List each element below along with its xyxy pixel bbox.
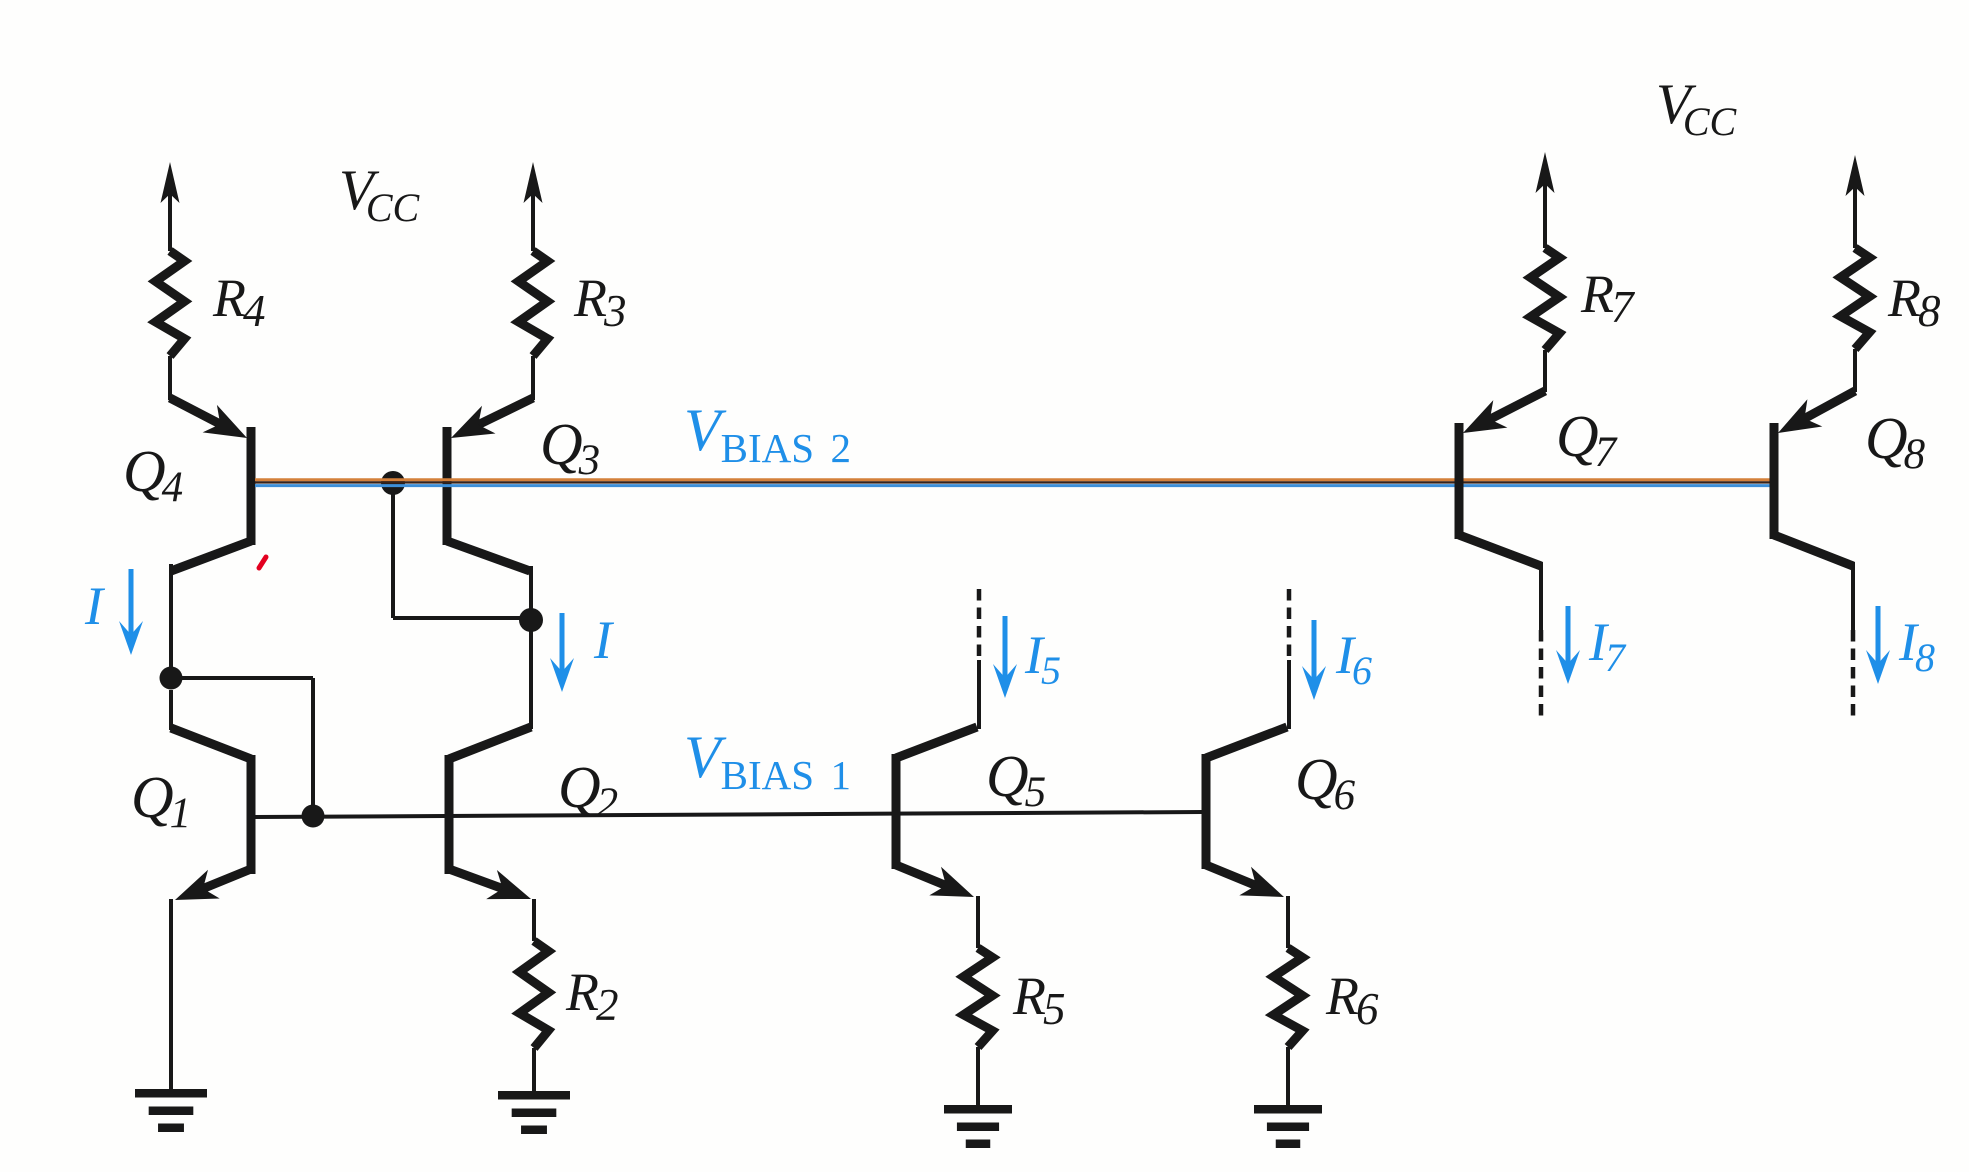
svg-text:VBIAS 1: VBIAS 1 [684,724,851,798]
transistor Q8 (pnp) [1770,423,1779,539]
transistor Q7 (pnp) [1455,423,1464,539]
svg-text:VCC: VCC [1656,73,1738,144]
VCC supply arrow (above R3) [531,178,535,251]
wire VBIAS1 line [255,812,1203,817]
svg-text:Q8: Q8 [1865,405,1926,478]
transistor Q2 (npn) [445,755,454,874]
resistor R5 [964,948,993,1047]
wire Q7 collector (solid) [1539,562,1543,630]
current arrow I6 (blue) [1312,620,1317,682]
svg-text:I8: I8 [1898,612,1935,680]
current arrow I8 (blue) [1876,606,1881,666]
wire R2 to ground [532,1048,536,1092]
svg-text:I5: I5 [1024,625,1061,693]
svg-text:R4: R4 [212,268,266,336]
resistor R8 [1841,248,1870,349]
svg-text:Q1: Q1 [131,764,191,837]
ground (Q1 emitter) [135,1089,207,1098]
svg-text:Q3: Q3 [540,411,600,484]
svg-text:I: I [84,576,106,636]
junction dot on VBIAS2 (bases of Q3/Q4) [381,471,405,495]
wire Q8 collector (solid) [1851,562,1855,630]
wire VBIAS2 line (orange/dark/blue fringed) [255,478,1770,481]
current arrow I (middle, blue) [560,613,565,674]
wire R3 bottom to Q3 emitter [531,356,535,400]
wire R4 bottom to Q4 emitter [168,356,172,400]
ground (R2) [498,1091,570,1100]
svg-text:Q4: Q4 [123,438,183,511]
wire Q5 collector (solid) [977,660,981,729]
wire Q1 emitter to ground [169,899,173,1090]
transistor Q5 (npn) [892,754,901,869]
node A junction dot (Q4 collector / Q1 collector / wire to VBIAS1) [160,667,183,690]
svg-text:VCC: VCC [339,159,421,230]
svg-text:I: I [593,610,615,670]
current arrow I (left, blue) [129,569,134,637]
stray red mark [259,557,266,568]
wire Q6 collector (solid) [1287,660,1291,729]
current arrow I7 (blue) [1566,606,1571,666]
resistor R3 [519,251,548,356]
transistor Q1 (npn) [247,755,256,874]
svg-text:R7: R7 [1580,264,1636,332]
wire Q3 collector to node B [529,566,533,620]
resistor R2 [520,941,549,1048]
transistor Q4 (pnp) [247,427,256,545]
svg-text:VBIAS 2: VBIAS 2 [684,397,851,471]
wire Q6 emitter to R6 [1286,896,1290,948]
dashed wire below Q8 collector [1851,630,1856,716]
resistor R7 [1531,248,1560,350]
wire R7 to Q7 emitter [1543,350,1547,392]
wire node A to base link corner [171,676,313,680]
wire R5 to ground [976,1047,980,1106]
svg-text:R3: R3 [573,268,627,336]
wire link to node B [393,616,531,620]
VCC supply arrow (above R7) [1543,168,1547,248]
svg-text:Q5: Q5 [986,743,1046,816]
wire Q2 emitter to R2 [532,899,536,941]
svg-text:R8: R8 [1887,268,1941,336]
svg-text:Q7: Q7 [1556,403,1618,476]
wire Q4 collector to node A [169,564,173,678]
VCC supply arrow (above R4) [168,178,172,251]
dashed wire below Q7 collector [1539,630,1544,716]
current arrow I5 (blue) [1003,616,1008,680]
VCC supply arrow (above R8) [1853,171,1857,248]
transistor Q3 (pnp, diode-connected) [443,427,452,545]
svg-text:Q6: Q6 [1295,746,1356,819]
dashed wire above Q6 collector [1287,589,1292,662]
svg-text:R2: R2 [565,962,619,1030]
transistor Q6 (npn) [1202,754,1211,869]
node B junction dot (Q3 collector / Q2 collector / base link) [519,608,543,632]
wire VBIAS2 junction down [391,483,395,618]
svg-text:R6: R6 [1325,966,1379,1034]
svg-text:I7: I7 [1588,612,1627,680]
junction dot on VBIAS1 (bases of Q1/Q2) [302,805,325,828]
wire vertical link down to VBIAS1 node [311,678,315,816]
wire R8 to Q8 emitter [1853,349,1857,392]
wire R6 to ground [1286,1047,1290,1106]
svg-text:I6: I6 [1335,625,1372,693]
resistor R4 [156,251,185,356]
dashed wire above Q5 collector [977,589,982,662]
svg-text:R5: R5 [1012,966,1066,1034]
wire Q5 emitter to R5 [976,896,980,948]
ground (R6) [1254,1105,1322,1114]
ground (R5) [944,1105,1012,1114]
resistor R6 [1274,948,1303,1047]
